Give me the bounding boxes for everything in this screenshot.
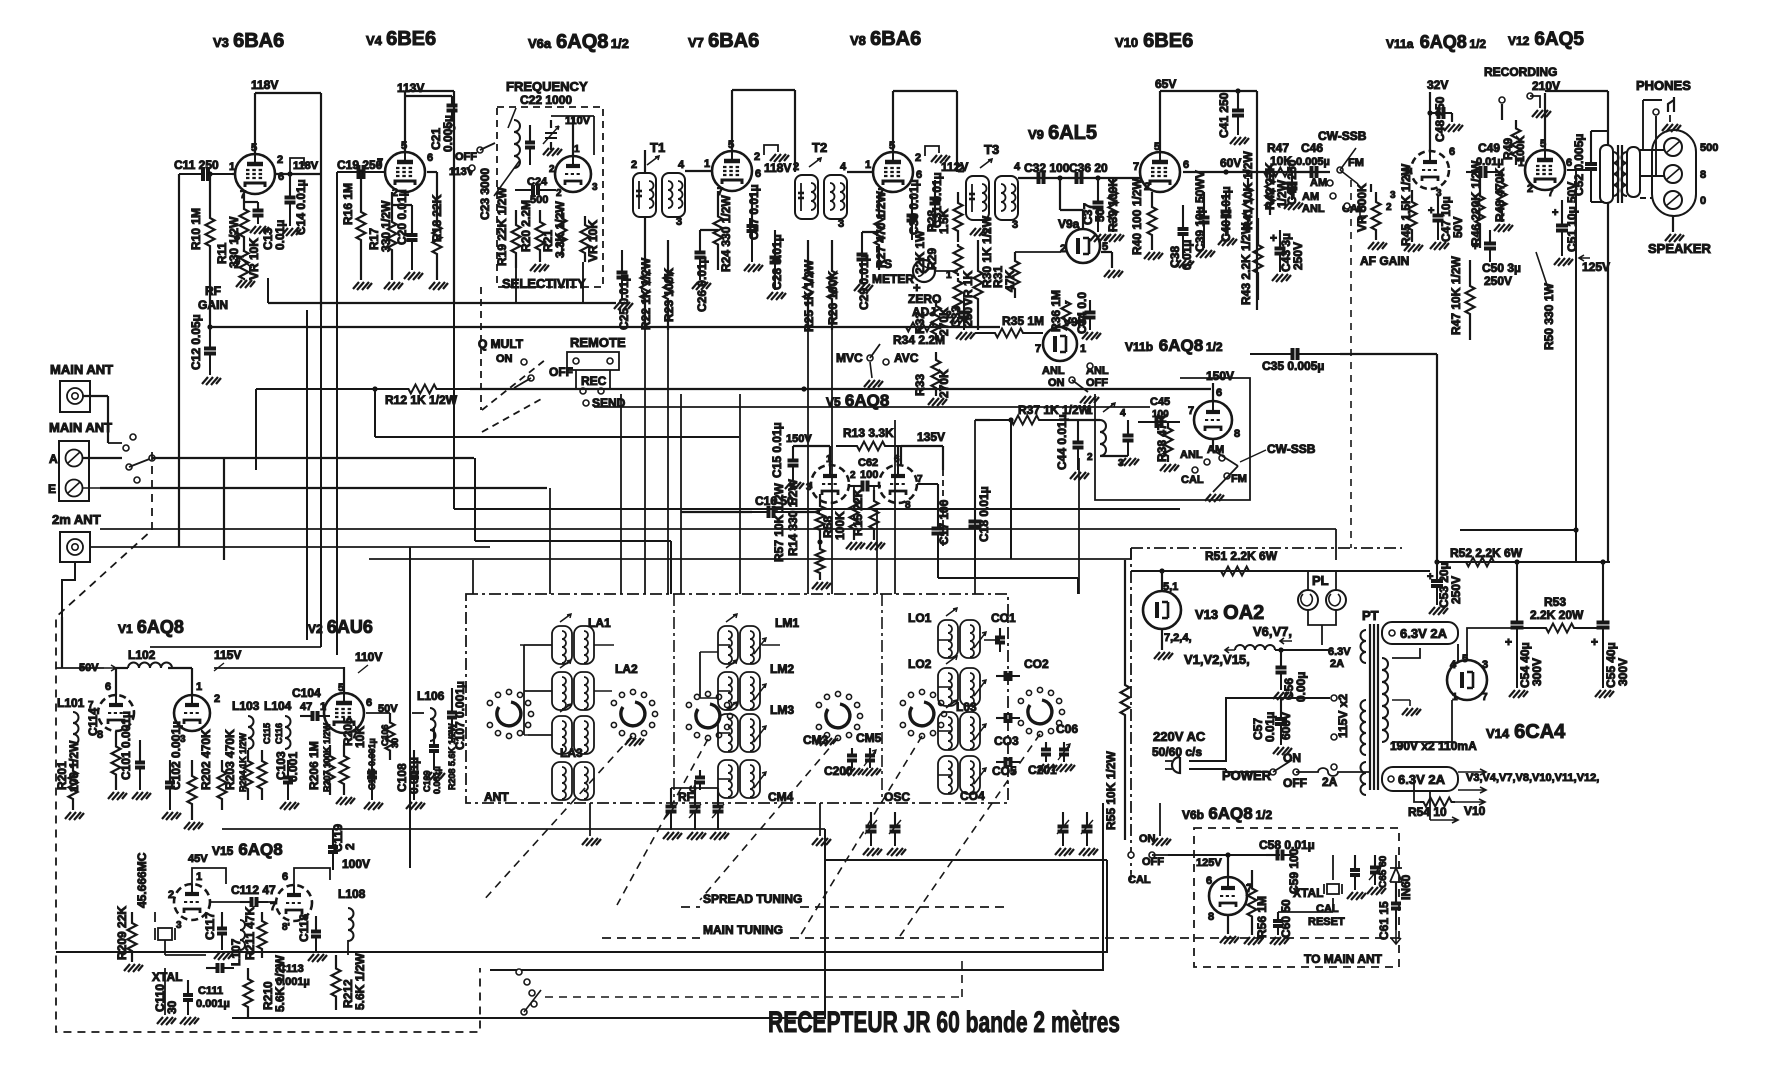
dashed main	[602, 937, 700, 939]
ground	[1595, 690, 1614, 698]
svg-text:V4: V4	[366, 33, 383, 48]
tube V1b	[174, 695, 210, 731]
V14 tube	[1447, 660, 1487, 700]
svg-text:C26 0.01µ: C26 0.01µ	[695, 256, 709, 312]
svg-text:CAL: CAL	[1181, 474, 1204, 486]
ground	[1082, 332, 1101, 340]
capacitor C28	[774, 230, 776, 258]
tube V6b	[1209, 877, 1247, 915]
ground	[767, 292, 786, 300]
svg-text:2.2K 20W: 2.2K 20W	[1530, 608, 1584, 622]
wire T2-V8	[847, 171, 873, 173]
resistor R18	[433, 200, 442, 280]
ground	[406, 802, 425, 810]
svg-text:2: 2	[556, 188, 562, 199]
svg-text:R25 1K 1/2W: R25 1K 1/2W	[802, 259, 816, 332]
resistor R32	[932, 300, 941, 340]
wire 63V to V14	[1457, 644, 1459, 662]
ground	[928, 398, 947, 406]
ground	[866, 542, 885, 550]
svg-text:R54 10: R54 10	[1408, 805, 1447, 819]
svg-text:LA2: LA2	[615, 662, 638, 676]
capacitor C33	[963, 300, 965, 313]
wire VR down	[582, 262, 584, 303]
dash vertical Q MULT	[480, 287, 482, 410]
wire R12 left	[256, 388, 375, 390]
ground	[816, 738, 835, 746]
svg-text:6: 6	[282, 871, 288, 883]
svg-text:4: 4	[840, 161, 847, 173]
tube V5b	[879, 465, 917, 503]
terminal 8	[1664, 165, 1682, 183]
svg-text:1: 1	[1080, 343, 1086, 355]
svg-text:R204 1K 1/2W: R204 1K 1/2W	[238, 732, 248, 792]
svg-text:REMOTE: REMOTE	[570, 335, 626, 350]
resistor R43	[1254, 218, 1263, 300]
ground	[692, 282, 711, 290]
wire	[1256, 91, 1258, 310]
svg-text:1/2: 1/2	[1206, 340, 1223, 354]
svg-text:R38 47K: R38 47K	[1155, 414, 1169, 462]
capacitor C36	[1068, 177, 1077, 179]
svg-text:C118: C118	[297, 914, 311, 942]
wire 60V line	[1183, 171, 1330, 173]
svg-text:C12 0.05µ: C12 0.05µ	[189, 314, 203, 370]
svg-text:PHONES: PHONES	[1636, 78, 1691, 93]
svg-text:MVC: MVC	[836, 351, 863, 365]
svg-text:2: 2	[1060, 243, 1066, 255]
resistor R40	[1148, 192, 1157, 250]
svg-text:C22 1000: C22 1000	[520, 93, 572, 107]
svg-text:R55 10K 1/2W: R55 10K 1/2W	[1104, 751, 1118, 830]
svg-text:ANL: ANL	[1042, 365, 1065, 377]
resistor R58	[850, 490, 859, 540]
svg-text:2: 2	[1527, 183, 1533, 195]
wire E	[83, 487, 300, 489]
callout C23	[494, 160, 520, 196]
svg-text:125V: 125V	[1196, 857, 1222, 869]
capacitor C19	[337, 171, 359, 173]
svg-text:AF GAIN: AF GAIN	[1360, 254, 1409, 268]
capacitor C107	[451, 688, 453, 713]
svg-text:6BA6: 6BA6	[233, 30, 284, 52]
ground	[812, 582, 831, 590]
svg-text:0.01µ: 0.01µ	[1263, 712, 1277, 742]
svg-text:2m ANT: 2m ANT	[52, 512, 101, 527]
resistor R14	[816, 494, 825, 542]
ground	[1273, 692, 1292, 700]
svg-text:2: 2	[915, 152, 921, 164]
svg-text:R43 2.2K 1/2W: R43 2.2K 1/2W	[1239, 222, 1253, 305]
svg-text:+: +	[1427, 571, 1433, 583]
ground	[1160, 464, 1179, 472]
svg-text:6: 6	[105, 681, 111, 693]
svg-text:ON: ON	[1139, 833, 1156, 845]
dash diag 3	[700, 738, 838, 900]
svg-text:6: 6	[1206, 875, 1212, 887]
ground	[710, 832, 729, 840]
coil LO2	[938, 656, 986, 706]
svg-text:SPEAKER: SPEAKER	[1648, 241, 1711, 256]
tube V2	[324, 693, 364, 733]
svg-text:OA2: OA2	[1223, 602, 1264, 624]
meter resistor R30	[974, 240, 983, 330]
svg-text:4: 4	[1450, 659, 1457, 671]
tube V15b	[276, 885, 312, 921]
ground	[1070, 472, 1089, 480]
ground	[663, 832, 682, 840]
svg-text:C20 0.01µ: C20 0.01µ	[395, 189, 409, 245]
callout R50	[1536, 252, 1548, 288]
svg-text:R33: R33	[913, 374, 927, 396]
svg-text:0.001µ: 0.001µ	[196, 998, 230, 1010]
wire	[1227, 855, 1229, 877]
wire 2m ant	[62, 562, 75, 617]
wire det line	[1018, 177, 1120, 179]
svg-text:45.666MC: 45.666MC	[135, 852, 149, 908]
svg-text:C24: C24	[527, 176, 548, 188]
capacitor C30	[911, 196, 913, 216]
svg-text:3: 3	[1482, 659, 1488, 671]
svg-text:7,2,4,: 7,2,4,	[1164, 632, 1192, 644]
svg-text:8: 8	[1234, 428, 1240, 440]
wire plate V2	[343, 667, 345, 693]
tuning cap	[1127, 420, 1129, 436]
svg-text:3: 3	[592, 182, 598, 193]
svg-text:XTAL: XTAL	[152, 970, 182, 984]
rotary switch	[487, 689, 533, 738]
ground	[429, 282, 448, 290]
svg-text:330 1/2W: 330 1/2W	[379, 200, 393, 252]
capacitor C31	[934, 180, 936, 199]
svg-text:R206 1M: R206 1M	[307, 741, 321, 790]
ground	[970, 228, 989, 236]
svg-text:118V: 118V	[764, 161, 791, 175]
svg-text:0.001µ: 0.001µ	[432, 766, 442, 794]
svg-text:AM: AM	[1310, 177, 1327, 189]
svg-text:6AQ8: 6AQ8	[1159, 336, 1203, 355]
FREQUENCY dashed box	[497, 107, 603, 287]
svg-text:C28 0.01µ: C28 0.01µ	[770, 234, 784, 290]
svg-text:CO3: CO3	[994, 734, 1019, 748]
capacitor C37	[1097, 178, 1099, 203]
ground	[625, 738, 644, 746]
wire pin6	[1567, 169, 1586, 171]
svg-text:RF: RF	[205, 284, 221, 298]
svg-text:100K: 100K	[833, 511, 847, 540]
resistor R16	[357, 172, 366, 280]
svg-text:6AQ8: 6AQ8	[137, 617, 184, 637]
svg-text:1/2: 1/2	[1469, 37, 1486, 51]
wire meter	[934, 270, 958, 272]
wires antenna	[83, 395, 108, 397]
capacitor C11	[179, 173, 203, 175]
wire R19 down	[515, 268, 517, 303]
ground	[1079, 848, 1098, 856]
svg-text:3: 3	[838, 218, 844, 230]
svg-text:7: 7	[1482, 692, 1488, 703]
wire	[1212, 383, 1214, 401]
capacitor C104	[300, 715, 313, 717]
IF transformer T2	[795, 158, 847, 219]
svg-text:250V: 250V	[1484, 274, 1512, 288]
svg-text:7: 7	[1548, 188, 1554, 199]
wires PT to V14	[1392, 648, 1420, 658]
ground	[1152, 838, 1171, 846]
coil CO4 row	[938, 756, 986, 794]
svg-text:2: 2	[754, 151, 760, 163]
wire V9a pin2	[1015, 251, 1061, 253]
capacitor C38	[1182, 205, 1184, 229]
resistor R41	[1244, 178, 1253, 226]
ground	[1494, 224, 1513, 232]
resistor R53	[1517, 624, 1603, 633]
ground	[1270, 937, 1289, 945]
svg-text:1/2: 1/2	[1255, 808, 1272, 822]
wire y458	[152, 457, 474, 459]
resistor R24	[714, 191, 723, 270]
ground	[1080, 396, 1099, 404]
svg-text:METER: METER	[872, 272, 914, 286]
dashed CAL vertical	[1350, 180, 1352, 548]
wire y559	[369, 558, 1131, 560]
resistor R33	[932, 352, 941, 396]
ground	[931, 155, 950, 163]
svg-text:8: 8	[1700, 169, 1706, 181]
ground	[744, 264, 763, 272]
svg-text:50: 50	[1093, 208, 1107, 222]
svg-text:C104: C104	[292, 686, 321, 700]
coil LO3	[938, 700, 986, 750]
ground	[846, 542, 865, 550]
svg-text:2: 2	[549, 164, 555, 175]
svg-text:7: 7	[1133, 161, 1139, 173]
svg-text:R41 10K 1/2W: R41 10K 1/2W	[1241, 151, 1255, 230]
ground	[1154, 652, 1173, 660]
svg-text:SPREAD TUNING: SPREAD TUNING	[703, 892, 802, 906]
ground	[65, 812, 84, 820]
svg-text:VR 500K: VR 500K	[1355, 183, 1369, 232]
svg-text:8': 8'	[282, 922, 290, 933]
svg-text:OFF: OFF	[1283, 776, 1307, 790]
svg-text:L107: L107	[229, 938, 243, 966]
svg-text:CO1: CO1	[991, 611, 1016, 625]
tube V10 6BE6	[1140, 152, 1180, 192]
svg-text:V6a: V6a	[528, 36, 552, 51]
capacitor C56	[1280, 650, 1282, 668]
resistor R19	[512, 210, 521, 268]
ground	[214, 952, 233, 960]
wire R52 line	[1437, 561, 1610, 563]
ground	[308, 954, 327, 962]
wire plate V5b	[897, 446, 899, 465]
svg-text:R202 470K: R202 470K	[199, 729, 213, 790]
wire phones tap2	[1655, 116, 1657, 176]
wire 135V	[901, 445, 943, 447]
svg-text:L103: L103	[232, 699, 260, 713]
vertical x740	[739, 394, 741, 594]
wire	[644, 150, 646, 173]
resistor R31	[1011, 252, 1020, 298]
ground	[614, 302, 633, 310]
terminal 0	[1664, 191, 1682, 209]
svg-text:22K 1W: 22K 1W	[913, 230, 927, 274]
svg-text:6AQ8: 6AQ8	[1420, 32, 1467, 52]
wire vr10k stub	[267, 278, 269, 303]
svg-text:6BA6: 6BA6	[870, 28, 921, 50]
svg-text:TO MAIN ANT: TO MAIN ANT	[1304, 952, 1383, 966]
svg-text:ON: ON	[496, 353, 513, 365]
wire	[1082, 210, 1084, 229]
vertical R37 drop	[1010, 420, 1012, 559]
capacitor C54	[1514, 559, 1519, 564]
svg-text:R211 47K: R211 47K	[243, 906, 257, 960]
svg-text:R51 2.2K 6W: R51 2.2K 6W	[1205, 549, 1278, 563]
C201 caps	[1045, 742, 1047, 750]
svg-text:0.001µ: 0.001µ	[276, 976, 310, 988]
wire y578	[938, 577, 1078, 579]
svg-text:R10 1M: R10 1M	[189, 208, 203, 250]
svg-text:V3,V4,V7,V8,V10,V11,V12,: V3,V4,V7,V8,V10,V11,V12,	[1466, 772, 1599, 784]
svg-text:4: 4	[678, 159, 685, 171]
capacitor C44	[1077, 420, 1079, 443]
svg-text:E: E	[48, 482, 56, 496]
svg-text:LO1: LO1	[908, 611, 932, 625]
svg-text:LM2: LM2	[770, 662, 794, 676]
capacitor C40	[1225, 192, 1227, 212]
vertical x975	[974, 420, 976, 594]
ground	[1038, 764, 1057, 772]
vertical x1576	[1575, 170, 1577, 562]
svg-text:V8: V8	[850, 33, 866, 48]
ground	[1104, 270, 1123, 278]
svg-text:R35 1M: R35 1M	[1002, 314, 1044, 328]
resistor R39	[1109, 178, 1118, 232]
capacitor C112	[240, 901, 252, 903]
potentiometer VR 10K	[240, 251, 249, 279]
vertical x454	[453, 303, 455, 509]
svg-text:R52 2.2K 6W: R52 2.2K 6W	[1450, 546, 1523, 560]
svg-text:FM: FM	[1231, 473, 1247, 485]
ground	[1444, 124, 1463, 132]
lever	[129, 458, 152, 467]
ground	[384, 282, 403, 290]
coil LA2 row	[552, 660, 594, 710]
fuse 2A	[1310, 768, 1346, 776]
terminal MAIN ANT	[60, 381, 90, 412]
ground	[1509, 690, 1528, 698]
svg-text:6: 6	[755, 168, 761, 180]
svg-text:115V x2: 115V x2	[1336, 694, 1350, 738]
vertical x322	[320, 310, 322, 647]
rotary switch	[816, 691, 862, 740]
vertical x895	[894, 420, 896, 594]
svg-text:6AU6: 6AU6	[327, 617, 373, 637]
svg-text:R49: R49	[1501, 138, 1515, 160]
svg-text:IN60: IN60	[1399, 874, 1413, 900]
wire ant bus	[523, 645, 525, 735]
svg-text:VR 10K: VR 10K	[586, 220, 600, 262]
stub R12 down	[374, 389, 376, 437]
svg-text:+: +	[1428, 205, 1434, 217]
callout	[508, 108, 516, 128]
coil L frequency	[514, 120, 520, 168]
resistor R209	[128, 912, 137, 962]
tube V3 6BA6	[235, 154, 275, 194]
wire T1-V7	[685, 170, 712, 172]
coil L11	[1100, 420, 1106, 456]
capacitor C27	[751, 195, 753, 226]
ground	[1284, 202, 1303, 210]
svg-text:500: 500	[1700, 142, 1718, 154]
svg-text:60V: 60V	[1220, 156, 1241, 170]
antenna switch	[123, 445, 129, 451]
trim cap arrow	[1103, 403, 1115, 412]
capacitor C42	[1291, 172, 1293, 184]
svg-text:250: 250	[961, 307, 975, 327]
dash diag 5	[900, 734, 1040, 936]
coil CM4 row	[718, 760, 766, 798]
ground	[1402, 708, 1421, 716]
svg-text:V7: V7	[688, 35, 704, 50]
svg-text:1: 1	[704, 158, 710, 170]
dash diag 2	[617, 739, 708, 905]
resistor R27	[875, 192, 884, 270]
svg-text:1: 1	[196, 871, 202, 883]
speaker terminals	[1652, 130, 1696, 216]
svg-text:R209 22K: R209 22K	[115, 906, 129, 960]
svg-text:R32: R32	[913, 312, 927, 334]
choke coil	[1235, 645, 1275, 650]
tube V8 6BA6	[873, 152, 913, 192]
svg-text:R23 100K: R23 100K	[662, 268, 676, 322]
svg-text:R208 5.6K 1/2W: R208 5.6K 1/2W	[447, 723, 457, 790]
tube V7 6BA6	[712, 151, 752, 191]
capacitor C13	[257, 202, 259, 211]
svg-text:A: A	[49, 452, 58, 466]
ground	[1090, 234, 1109, 242]
transformer core	[1617, 145, 1619, 203]
vertical x1079	[1078, 458, 1080, 594]
diode 1N60	[1395, 855, 1397, 868]
wire y488	[100, 487, 547, 489]
meter S	[913, 260, 935, 282]
ground	[1105, 234, 1124, 242]
svg-text:4: 4	[1120, 408, 1126, 419]
svg-text:2: 2	[1087, 452, 1093, 463]
svg-text:125V: 125V	[1582, 260, 1610, 274]
svg-text:V6,V7,: V6,V7,	[1253, 624, 1292, 639]
ground	[250, 226, 269, 234]
capacitor C53	[1436, 562, 1438, 581]
svg-text:118V: 118V	[251, 78, 278, 92]
vertical x832	[831, 330, 833, 594]
capacitor C45	[1138, 421, 1157, 423]
svg-text:V14: V14	[1486, 726, 1510, 741]
svg-text:C25 0.01µ: C25 0.01µ	[617, 274, 631, 330]
svg-text:S: S	[884, 257, 892, 271]
lamp PL1	[1298, 590, 1318, 610]
svg-text:R57 10K 1/2W: R57 10K 1/2W	[772, 483, 786, 562]
rotary switch	[611, 689, 657, 738]
svg-text:1: 1	[229, 161, 235, 173]
svg-text:C116: C116	[274, 723, 284, 744]
svg-text:250V: 250V	[1291, 242, 1305, 270]
vertical x681	[680, 394, 682, 594]
wire plate V12	[1544, 93, 1546, 150]
svg-text:1: 1	[320, 701, 326, 713]
svg-text:AM: AM	[1207, 444, 1224, 456]
